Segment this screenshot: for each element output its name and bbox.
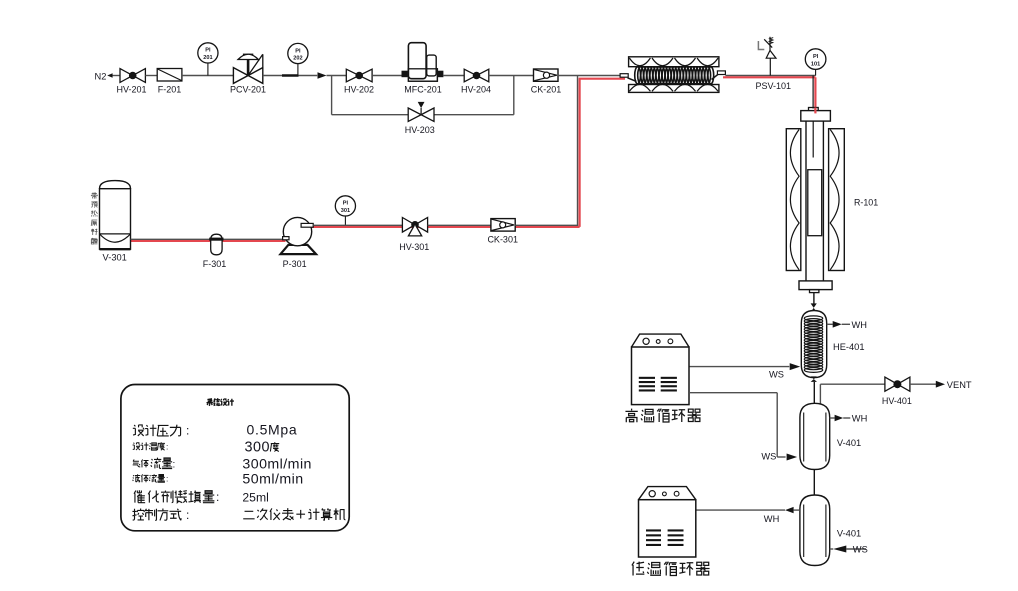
row 控制方式 xyxy=(132,508,189,522)
wire xyxy=(263,75,317,77)
value 二次仪表+计算机 xyxy=(243,508,345,520)
svg-text:0.5Mpa: 0.5Mpa xyxy=(247,421,298,437)
svg-text:F-301: F-301 xyxy=(203,259,227,269)
vessel V-401 lower xyxy=(800,495,830,566)
reactor bottom flange xyxy=(799,281,832,290)
bypass wire bottom xyxy=(332,114,514,116)
label VENT xyxy=(947,380,972,390)
wire between vessels xyxy=(813,470,815,496)
wire xyxy=(182,75,234,77)
label WH xyxy=(764,514,780,524)
label WS xyxy=(769,369,784,379)
svg-text:202: 202 xyxy=(293,56,302,62)
vessel V-401 upper xyxy=(800,403,830,469)
label WS xyxy=(761,452,776,462)
svg-text:HV-401: HV-401 xyxy=(882,396,912,406)
wire xyxy=(489,75,534,77)
row 气体流量 xyxy=(133,458,176,471)
label V-301 xyxy=(103,253,127,263)
red flow line to preheater xyxy=(579,78,625,80)
pump P-301 xyxy=(281,217,317,268)
svg-text:VENT: VENT xyxy=(947,380,972,390)
value 0.5Mpa xyxy=(247,421,298,437)
wire WS into V-401 xyxy=(777,454,797,461)
mass flow controller MFC-201 xyxy=(402,43,443,95)
svg-text:HV-201: HV-201 xyxy=(116,85,146,95)
reactor tube xyxy=(806,121,823,281)
svg-text:PI: PI xyxy=(205,48,211,54)
svg-text:300ml/min: 300ml/min xyxy=(242,456,312,472)
wire thick segment xyxy=(282,74,299,77)
svg-text:50ml/min: 50ml/min xyxy=(242,471,303,487)
wire tank to pump xyxy=(131,238,283,240)
control valve PCV-201 xyxy=(230,54,266,94)
wire xyxy=(372,75,402,77)
svg-text:101: 101 xyxy=(811,61,820,67)
svg-text:PSV-101: PSV-101 xyxy=(756,81,792,91)
label V-401 xyxy=(837,438,861,448)
red flow drop to reactor xyxy=(814,77,816,111)
svg-text:HV-301: HV-301 xyxy=(399,242,429,252)
svg-text:N2: N2 xyxy=(95,71,107,81)
heat exchanger HE-401 xyxy=(801,311,826,378)
valve HV-203 xyxy=(405,102,435,135)
red flow line vertical xyxy=(578,78,580,227)
svg-text:V-401: V-401 xyxy=(837,529,861,539)
svg-text:WS: WS xyxy=(769,369,784,379)
svg-text:V-301: V-301 xyxy=(103,253,127,263)
svg-text:P-301: P-301 xyxy=(283,259,307,269)
valve HV-301 xyxy=(399,218,429,253)
arrow to N2 xyxy=(107,73,120,77)
row 设计温度 xyxy=(133,442,169,452)
svg-text:HE-401: HE-401 xyxy=(833,342,865,352)
svg-text::: : xyxy=(173,459,176,470)
instrument PI-101 xyxy=(805,49,826,76)
svg-text:CK-201: CK-201 xyxy=(531,85,562,95)
wire to junction xyxy=(515,224,578,226)
svg-text:PI: PI xyxy=(813,54,819,60)
wire WS into V-401 lower xyxy=(830,546,866,553)
svg-text:WS: WS xyxy=(761,452,776,462)
label WH xyxy=(852,414,868,424)
wire WS into HE-401 xyxy=(689,363,800,370)
info box frame xyxy=(121,385,349,531)
valve HV-401 xyxy=(882,377,912,406)
check valve CK-301 xyxy=(487,219,518,245)
row 液体流量 xyxy=(133,474,169,484)
junction wire vertical xyxy=(577,76,579,226)
label 带预热原料罐 xyxy=(91,193,97,244)
svg-text:F-201: F-201 xyxy=(158,85,182,95)
svg-text:WH: WH xyxy=(852,320,868,330)
wire xyxy=(145,75,157,77)
valve HV-204 xyxy=(461,69,491,95)
reactor R-101 top flange xyxy=(801,108,831,122)
flow arrow xyxy=(318,72,347,79)
svg-text:WH: WH xyxy=(852,414,868,424)
label WS xyxy=(853,545,868,555)
svg-text::: : xyxy=(166,474,168,484)
svg-text::: : xyxy=(186,508,189,522)
label 低温循环器 xyxy=(632,562,710,576)
svg-text:PCV-201: PCV-201 xyxy=(230,85,266,95)
wire xyxy=(443,75,464,77)
label V-401 xyxy=(837,529,861,539)
check valve CK-201 xyxy=(531,69,562,95)
label WH xyxy=(852,320,868,330)
svg-text:WS: WS xyxy=(853,545,868,555)
relief valve PSV-101 xyxy=(756,37,792,91)
svg-text:301: 301 xyxy=(341,208,350,214)
instrument PI-301 xyxy=(335,196,355,226)
coil inlet knot xyxy=(811,303,817,312)
bypass wire down xyxy=(331,76,333,115)
wire drop to reactor xyxy=(812,76,814,109)
filter F-301 xyxy=(203,234,227,269)
svg-text:V-401: V-401 xyxy=(837,438,861,448)
value 50ml/min xyxy=(242,471,303,487)
svg-text:R-101: R-101 xyxy=(854,197,878,207)
valve HV-201 xyxy=(116,69,146,95)
wire HE-401 to V-401 xyxy=(813,382,815,404)
svg-text:HV-202: HV-202 xyxy=(344,85,374,95)
heater block right xyxy=(829,129,845,271)
value 25ml xyxy=(242,490,268,504)
svg-text:WH: WH xyxy=(764,514,780,524)
node N2 source xyxy=(95,71,107,81)
wire pump to HV-301 xyxy=(313,224,402,226)
label HE-401 xyxy=(833,342,865,352)
wire WH out of V-401 xyxy=(830,415,851,421)
bypass wire up xyxy=(513,76,515,115)
value 300ml/min xyxy=(242,456,312,472)
wire reactor to HE-401 xyxy=(813,293,815,304)
instrument PI-201 xyxy=(198,43,218,76)
filter F-201 xyxy=(157,69,182,95)
svg-text:201: 201 xyxy=(203,55,212,61)
red flow line from tank xyxy=(128,240,286,242)
svg-text:PI: PI xyxy=(343,201,349,207)
svg-text:300: 300 xyxy=(245,440,271,456)
valve HV-202 xyxy=(344,69,374,95)
svg-text:HV-203: HV-203 xyxy=(405,125,435,135)
svg-text:MFC-201: MFC-201 xyxy=(404,85,442,95)
low temperature circulator xyxy=(639,487,696,557)
wire WH out of HE-401 xyxy=(827,321,850,328)
vent branch wire xyxy=(820,384,885,407)
svg-text::: : xyxy=(216,490,219,504)
label 高温循环器 xyxy=(625,409,700,423)
title 系统设计 xyxy=(206,399,233,406)
high temperature circulator xyxy=(632,334,690,405)
svg-text:HV-204: HV-204 xyxy=(461,85,491,95)
coil outlet knot xyxy=(811,376,817,382)
wire xyxy=(428,224,491,226)
row 催化剂装填量 xyxy=(134,490,219,504)
wire to VENT xyxy=(910,381,945,388)
heater block left xyxy=(786,129,801,271)
wire circulator to V-401 WS xyxy=(689,393,777,457)
value 300度 xyxy=(245,440,280,456)
svg-text::: : xyxy=(166,442,168,452)
label R-101 xyxy=(854,197,878,207)
preheater E-201 xyxy=(620,57,725,93)
reactor bottom nozzle xyxy=(810,290,819,293)
wire preheater to corner xyxy=(725,75,815,77)
instrument PI-202 xyxy=(288,43,308,75)
svg-text:25ml: 25ml xyxy=(242,490,268,504)
svg-text::: : xyxy=(186,424,189,438)
tank V-301 xyxy=(100,181,131,250)
red flow line after preheater xyxy=(723,76,815,78)
row 设计压力 xyxy=(133,424,190,438)
reactor R-101 top nozzle xyxy=(809,108,819,112)
wire xyxy=(558,75,623,77)
svg-text:CK-301: CK-301 xyxy=(487,235,518,245)
wire WH out to low-temp circulator xyxy=(696,507,800,513)
catalyst bed xyxy=(808,170,822,236)
red flow line pump outlet xyxy=(311,226,580,228)
svg-text:PI: PI xyxy=(295,48,301,54)
